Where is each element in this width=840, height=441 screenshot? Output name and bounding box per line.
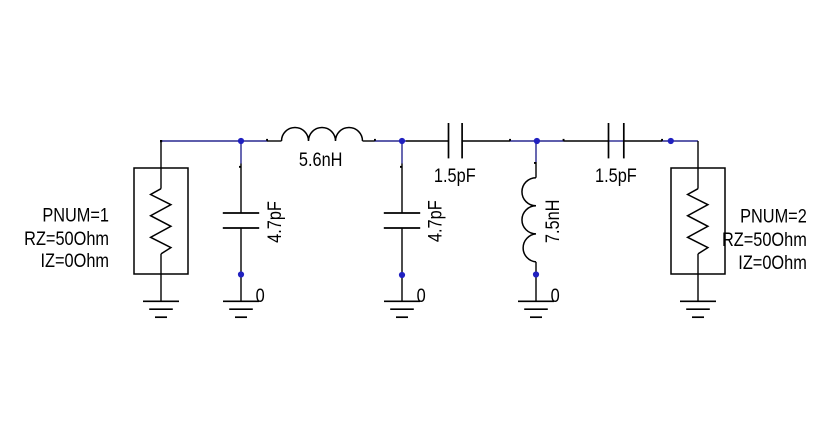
svg-text:4.7pF: 4.7pF xyxy=(424,200,445,242)
svg-text:IZ=0Ohm: IZ=0Ohm xyxy=(41,250,109,271)
svg-text:RZ=50Ohm: RZ=50Ohm xyxy=(24,228,109,249)
svg-text:0: 0 xyxy=(256,285,265,306)
svg-text:1.5pF: 1.5pF xyxy=(434,165,476,186)
svg-text:PNUM=2: PNUM=2 xyxy=(740,205,807,226)
svg-text:7.5nH: 7.5nH xyxy=(542,200,563,244)
svg-text:PNUM=1: PNUM=1 xyxy=(42,204,109,225)
svg-text:RZ=50Ohm: RZ=50Ohm xyxy=(722,229,807,250)
svg-text:5.6nH: 5.6nH xyxy=(299,149,343,170)
svg-text:1.5pF: 1.5pF xyxy=(595,165,637,186)
svg-text:4.7pF: 4.7pF xyxy=(264,201,285,243)
svg-text:0: 0 xyxy=(417,285,426,306)
svg-text:IZ=0Ohm: IZ=0Ohm xyxy=(738,252,806,273)
svg-text:0: 0 xyxy=(551,285,560,306)
